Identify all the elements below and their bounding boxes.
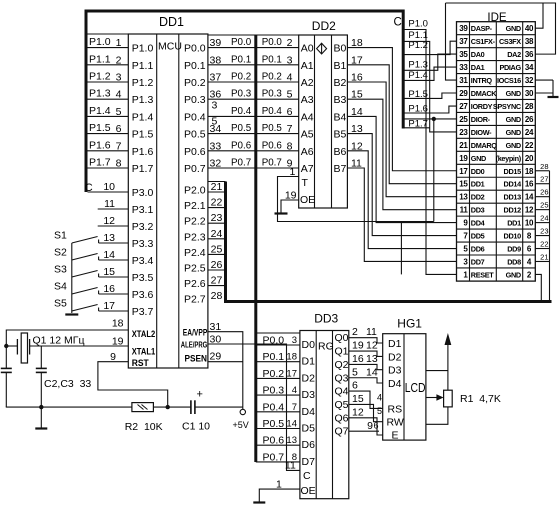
svg-text:39: 39 (459, 24, 468, 33)
IDE row pin 33 DA1 / PDIAG pin 34 (459, 63, 534, 72)
label P0.6 DD3 ladder (263, 435, 285, 447)
ground at DD2 OE (275, 212, 288, 214)
svg-text:DA1: DA1 (471, 63, 485, 72)
svg-text:GND: GND (506, 128, 521, 137)
pin 1 DD1 P1.0 (116, 37, 122, 49)
svg-text:B0: B0 (334, 43, 347, 55)
bus C top horizontal (group line) (85, 10, 405, 13)
svg-text:36: 36 (525, 50, 534, 59)
pin 9 DD2 A7 (287, 158, 293, 170)
label P0.4 ladder right (262, 106, 283, 117)
svg-text:38: 38 (525, 37, 534, 46)
svg-text:SPSYNC: SPSYNC (493, 102, 522, 111)
svg-text:+: + (197, 389, 203, 401)
svg-text:DD1: DD1 (471, 180, 485, 189)
DD1 labels EA ALE PSEN (181, 328, 208, 365)
svg-text:DD2: DD2 (312, 19, 336, 33)
svg-text:P2.6: P2.6 (184, 278, 206, 290)
pin 11 DD1 P3.1 (104, 198, 115, 210)
svg-text:S4: S4 (54, 281, 67, 293)
svg-text:10: 10 (525, 219, 534, 228)
svg-text:8: 8 (116, 158, 122, 170)
MCU DD1 box (128, 34, 208, 368)
pin 11 HG1 (366, 326, 377, 338)
svg-text:15: 15 (459, 180, 468, 189)
wire P1.7 to IDE DIOR (405, 118, 457, 120)
svg-text:A3: A3 (301, 94, 314, 106)
svg-text:P0.0: P0.0 (263, 335, 285, 347)
label P0.4 ladder left (231, 106, 252, 117)
svg-text:RW: RW (387, 417, 404, 429)
DD2 internal label OE (300, 194, 315, 206)
label P0.5 DD3 ladder (263, 418, 285, 430)
DD3 internal label OE (301, 485, 316, 497)
svg-text:17: 17 (103, 300, 115, 312)
pin 32 DD1 P0.7 (210, 158, 222, 170)
wire RST (98, 362, 168, 407)
label P0.0 ladder left (231, 37, 252, 48)
svg-text:P0.0: P0.0 (231, 37, 252, 48)
svg-text:3: 3 (116, 72, 122, 84)
svg-text:GND: GND (506, 270, 521, 279)
wire P1.5 to IDE DMACK (405, 93, 457, 98)
svg-text:9: 9 (367, 420, 373, 432)
svg-text:22: 22 (211, 197, 223, 209)
svg-text:B5: B5 (334, 129, 347, 141)
svg-text:6: 6 (374, 421, 379, 431)
wire DD3 Q1 to HG1 (349, 340, 383, 357)
pin 7 DD1 P1.6 (116, 140, 122, 152)
svg-text:P0.2: P0.2 (184, 77, 206, 89)
svg-text:P1.0: P1.0 (408, 18, 428, 29)
wire P1.1 to IDE DIOW (405, 41, 457, 131)
svg-text:21: 21 (211, 181, 223, 193)
svg-text:P3.3: P3.3 (132, 238, 154, 250)
IDE row pin 25 DIOR- / GND pin 26 (459, 115, 534, 124)
wire DD2 OE to ground (281, 200, 299, 213)
pin 4 DD1 P1.3 (116, 89, 122, 101)
wire DD2 B7 to IDE DD7 (347, 158, 456, 262)
ground for switches (65, 313, 78, 315)
DD3 ladder wires (256, 345, 300, 462)
pin 6 HG1 (374, 421, 379, 431)
ground at DD3 OE (253, 501, 265, 503)
svg-text:P1.2: P1.2 (132, 77, 154, 89)
P0 ladder wires DD1-DD2 (208, 48, 299, 168)
bus P0 vertical DD1-DD2-DD3 (254, 35, 257, 462)
svg-text:P0.4: P0.4 (263, 401, 285, 413)
wire DD3 Q5 to HG1 (349, 393, 383, 422)
svg-text:37: 37 (459, 37, 468, 46)
svg-text:RG: RG (318, 341, 334, 353)
svg-text:20: 20 (525, 154, 534, 163)
bus C left vertical (85, 10, 88, 193)
svg-text:B7: B7 (334, 163, 347, 175)
pin 24 DD1 P2.3 (211, 228, 223, 240)
label P0.1 DD3 ladder (263, 351, 285, 363)
HG1 internal pin labels (387, 338, 404, 442)
svg-text:13: 13 (351, 123, 363, 135)
svg-text:15: 15 (103, 266, 115, 278)
svg-text:DD5: DD5 (471, 232, 485, 241)
pin 33 DD1 P0.6 (210, 140, 222, 152)
pin 26 DD1 P2.5 (211, 259, 223, 271)
svg-text:38: 38 (210, 54, 222, 66)
DD1 internal labels P0.0-P0.7 (184, 43, 206, 175)
svg-text:10: 10 (103, 181, 115, 193)
svg-text:21: 21 (540, 252, 548, 261)
svg-text:E: E (392, 430, 399, 442)
svg-text:A1: A1 (301, 60, 314, 72)
wire DD3 Q0 to HG1 (349, 326, 383, 343)
svg-text:P0.7: P0.7 (184, 163, 206, 175)
svg-text:DD3: DD3 (314, 312, 338, 326)
svg-text:23: 23 (459, 128, 468, 137)
IDE row pin 15 DD1 / DD14 pin 16 (459, 180, 534, 189)
svg-text:11: 11 (366, 326, 377, 338)
svg-text:P0.4: P0.4 (231, 106, 252, 117)
pin 10 DD1 P3.0 (103, 181, 115, 193)
IDE row pin 29 DMACK / GND pin 30 (459, 89, 534, 98)
wire IDE pin 6 stub to P2 bus (535, 240, 549, 249)
wire DD3 Q3 to HG1 (349, 366, 383, 383)
capacitor C2 (1, 346, 12, 407)
svg-text:27: 27 (211, 275, 223, 287)
svg-text:P0.1: P0.1 (263, 351, 285, 363)
svg-text:Q6: Q6 (335, 412, 349, 424)
label C1 10 (182, 421, 210, 433)
wire R1 bottom to LCD (426, 407, 448, 424)
svg-text:40: 40 (525, 24, 534, 33)
svg-text:4: 4 (292, 385, 297, 396)
pin 35 split digit 5 (212, 116, 218, 128)
svg-text:P3.4: P3.4 (132, 255, 154, 267)
svg-text:RST: RST (132, 358, 149, 369)
svg-text:28: 28 (211, 290, 223, 302)
svg-text:3: 3 (287, 54, 293, 66)
svg-text:B6: B6 (334, 146, 347, 158)
wire P1.0 to IDE RESET (405, 30, 457, 275)
svg-text:8: 8 (287, 140, 293, 152)
svg-text:XTAL1: XTAL1 (132, 347, 156, 358)
svg-text:12: 12 (366, 340, 378, 352)
wire IDE GND pin40 to DA2 pin36 (446, 3, 556, 80)
svg-text:CS3FX: CS3FX (499, 37, 521, 46)
svg-text:GND: GND (471, 154, 486, 163)
svg-text:P0.4: P0.4 (262, 106, 283, 117)
svg-text:P3.7: P3.7 (132, 306, 154, 318)
svg-text:R2 10K: R2 10K (125, 421, 163, 433)
IDE row pin 11 DD3 / DD12 pin 12 (460, 206, 534, 215)
label P0.6 ladder left (231, 140, 252, 151)
DD3 internal labels Q0-Q7 (335, 332, 349, 437)
svg-text:5: 5 (377, 406, 382, 416)
wire P1.3 to IDE DA0 (405, 54, 457, 70)
label P0.2 ladder right (262, 72, 282, 83)
svg-text:A4: A4 (301, 111, 314, 123)
svg-text:DD7: DD7 (471, 257, 485, 266)
pin 7 DD2 A5 (287, 123, 293, 135)
wire P3.0 from bus C (88, 191, 129, 193)
pin 12 DD1 P3.2 (103, 215, 115, 227)
label DD1 (159, 15, 184, 29)
svg-text:P0.5: P0.5 (231, 123, 252, 134)
pin 1 DD2 T (290, 166, 296, 178)
label P1.4 left ladder (89, 105, 111, 117)
svg-text:D1: D1 (302, 356, 316, 368)
svg-text:27: 27 (540, 175, 548, 184)
wire DD3 Q6 to HG1 (349, 406, 383, 435)
pin 14 DD3 D5 (286, 419, 297, 430)
label P0.4 DD3 ladder (263, 401, 285, 413)
label Q1 12 MHz (33, 335, 85, 347)
pin 17 DD3 D2 (286, 368, 297, 379)
svg-text:P0.6: P0.6 (263, 435, 285, 447)
pin 13 HG1 (366, 353, 378, 365)
svg-text:D1: D1 (388, 338, 402, 350)
wire rail R2 to C1 (153, 406, 191, 408)
label P0.1 ladder left (231, 54, 251, 65)
label P1.1 right staircase (408, 30, 428, 41)
svg-text:P1.4: P1.4 (89, 105, 111, 117)
svg-text:+5V: +5V (233, 420, 249, 430)
svg-text:A5: A5 (301, 129, 314, 141)
svg-text:26: 26 (540, 188, 548, 197)
wire DD2 T control (278, 177, 434, 222)
P1 ladder wires DD1 left (86, 34, 128, 168)
svg-text:P0.5: P0.5 (262, 123, 283, 134)
svg-text:6: 6 (287, 106, 293, 118)
svg-text:P0.6: P0.6 (184, 146, 206, 158)
svg-text:DD13: DD13 (504, 193, 522, 202)
switch S4 (54, 281, 128, 296)
pin 5 DD2 A3 (287, 89, 293, 101)
resistor R2 (132, 403, 154, 412)
svg-text:4: 4 (116, 89, 122, 101)
svg-text:P2.2: P2.2 (184, 216, 206, 228)
switch S2 (54, 247, 128, 262)
pin 28 DD1 P2.7 (211, 290, 223, 302)
svg-text:18: 18 (525, 167, 534, 176)
svg-text:P1.7: P1.7 (132, 163, 154, 175)
svg-text:EA/VPP: EA/VPP (183, 328, 208, 338)
pin 9 RST (110, 351, 116, 363)
svg-text:DD10: DD10 (504, 232, 522, 241)
pin 34 DD1 P0.5 (210, 123, 222, 135)
svg-text:DD1: DD1 (159, 15, 184, 29)
svg-text:22: 22 (540, 240, 548, 249)
svg-text:DMARQ: DMARQ (471, 141, 497, 150)
ground at C3 (35, 407, 47, 428)
connector IDE grid (457, 22, 536, 281)
svg-text:5: 5 (116, 106, 122, 118)
svg-text:11: 11 (460, 206, 469, 215)
svg-text:P1.0: P1.0 (89, 36, 111, 48)
svg-text:4: 4 (287, 72, 293, 84)
svg-text:14: 14 (366, 366, 378, 378)
svg-text:PDIAG: PDIAG (499, 63, 521, 72)
svg-text:P3.0: P3.0 (132, 187, 154, 199)
svg-text:P0.0: P0.0 (262, 37, 283, 48)
wire DD2 B0 to IDE DD0 (347, 37, 456, 171)
DD2 internal label T (302, 177, 309, 189)
svg-text:IOCS16: IOCS16 (497, 76, 521, 85)
label P0.2 ladder left (231, 72, 251, 83)
svg-text:23: 23 (211, 212, 223, 224)
wire PSEN (208, 361, 243, 363)
svg-text:15: 15 (351, 89, 363, 101)
svg-text:OE: OE (301, 485, 316, 497)
pin 4 HG1 (377, 393, 382, 403)
svg-text:RESET: RESET (471, 270, 494, 279)
label P0.5 ladder right (262, 123, 283, 134)
pin 39 DD1 P0.0 (210, 37, 222, 49)
svg-text:XTAL2: XTAL2 (132, 329, 156, 340)
pin 2 DD1 P1.1 (116, 54, 122, 66)
IDE row pin 35 DA0 / DA2 pin 36 (459, 50, 534, 59)
svg-text:5: 5 (287, 89, 293, 101)
label P0.3 ladder left (231, 89, 252, 100)
svg-text:P0.1: P0.1 (184, 60, 206, 72)
svg-text:12: 12 (351, 140, 363, 152)
DD3 internal label C (303, 470, 311, 482)
svg-text:25: 25 (211, 243, 223, 255)
svg-text:P0.5: P0.5 (184, 129, 206, 141)
pin 2 DD2 A0 (287, 37, 293, 49)
label RG (318, 341, 334, 353)
wire T riser to DIOR net (433, 119, 435, 222)
bus P2 bottom horizontal (224, 300, 552, 303)
svg-text:DD12: DD12 (504, 206, 522, 215)
wire IDE pin 10 stub to P2 bus (535, 214, 549, 223)
label P0.3 ladder right (262, 89, 283, 100)
svg-text:13: 13 (366, 353, 378, 365)
svg-text:P0.3: P0.3 (262, 89, 283, 100)
label P0.1 ladder right (262, 54, 282, 65)
svg-text:32: 32 (525, 76, 534, 85)
svg-text:DD15: DD15 (504, 167, 522, 176)
svg-text:7: 7 (292, 402, 297, 413)
node C exit top right (394, 17, 402, 29)
svg-text:22: 22 (525, 141, 534, 150)
label HG1 (397, 317, 422, 331)
junction dot RST node (166, 405, 170, 409)
svg-text:14: 14 (103, 249, 115, 261)
svg-text:D0: D0 (302, 339, 316, 351)
svg-text:13: 13 (286, 435, 297, 446)
svg-text:MCU: MCU (158, 41, 182, 53)
svg-text:P2.3: P2.3 (184, 231, 206, 243)
svg-text:P0.5: P0.5 (263, 418, 285, 430)
capacitor C1 polarized (191, 389, 203, 415)
svg-text:RS: RS (388, 403, 403, 415)
P0 ladder top rule (208, 34, 299, 36)
switch S1 (54, 230, 128, 245)
label P1.2 left ladder (89, 71, 111, 83)
IDE row pin 23 DIOW- / GND pin 24 (459, 128, 534, 137)
wire LCD power arrow (426, 333, 451, 390)
IDE row pin 3 DD7 / DD8 pin 4 (463, 257, 532, 266)
svg-text:CS1FX-: CS1FX- (471, 37, 496, 46)
IDE row pin 1 RESET / GND pin 2 (463, 270, 532, 279)
P2 ladder top rule (208, 181, 226, 183)
svg-text:A7: A7 (301, 163, 314, 175)
label P1.7 right staircase (408, 118, 428, 129)
wire stub P3.2 (98, 225, 129, 227)
svg-text:P1.2: P1.2 (89, 71, 111, 83)
svg-text:P0.3: P0.3 (184, 94, 206, 106)
svg-text:P0.3: P0.3 (263, 385, 285, 397)
svg-text:P0.3: P0.3 (231, 89, 252, 100)
svg-text:HG1: HG1 (397, 317, 422, 331)
label C2,C3 33 (44, 378, 91, 390)
wire IDE GND pin2 to bus (535, 274, 541, 301)
svg-text:IORDY: IORDY (471, 102, 493, 111)
svg-text:17: 17 (286, 368, 297, 379)
svg-text:24: 24 (525, 128, 534, 137)
label P1.4 right staircase (408, 70, 428, 81)
svg-text:19: 19 (352, 340, 364, 352)
svg-text:P2.7: P2.7 (184, 294, 206, 306)
label P1.3 right staircase (408, 60, 428, 71)
pin 18 DD3 D1 (286, 352, 297, 363)
svg-text:1: 1 (116, 37, 122, 49)
IDE row pin 5 DD6 / DD9 pin 6 (463, 245, 532, 254)
svg-text:2: 2 (116, 54, 122, 66)
label P0.7 ladder right (262, 158, 282, 169)
svg-text:C2,C3 33: C2,C3 33 (44, 378, 91, 390)
DD3 internal labels D0-D7 (302, 339, 316, 468)
svg-text:37: 37 (210, 72, 222, 84)
svg-text:D7: D7 (302, 456, 316, 468)
pin 4 DD3 D3 (292, 385, 297, 396)
wire IDE pin 18 stub to P2 bus (535, 162, 549, 171)
label P1.7 left ladder (89, 157, 111, 169)
svg-text:Q2: Q2 (335, 359, 349, 371)
svg-text:18: 18 (351, 37, 363, 49)
wire DD3 OE to ground (259, 489, 300, 501)
DD1 internal labels P2.0-P2.7 (184, 185, 206, 306)
svg-text:P1.3: P1.3 (132, 94, 154, 106)
wire DD2 B5 to IDE DD5 (347, 123, 456, 235)
svg-text:2: 2 (352, 326, 358, 338)
bus P2 vertical (224, 182, 227, 303)
IDE row pin 19 GND / (keypin) pin 20 (459, 154, 534, 163)
ground at IDE pin30 (548, 96, 559, 98)
svg-text:DD1: DD1 (507, 219, 521, 228)
svg-text:Q7: Q7 (335, 426, 349, 438)
svg-text:30: 30 (525, 89, 534, 98)
svg-text:P1.4: P1.4 (132, 111, 154, 123)
svg-text:P2.1: P2.1 (184, 200, 206, 212)
pin 36 DD1 P0.3 (210, 89, 222, 101)
pin 13 DD3 D6 (286, 435, 297, 446)
svg-text:3: 3 (212, 100, 218, 112)
pin 29 PSEN (210, 351, 222, 363)
svg-text:16: 16 (352, 353, 364, 365)
LCD HG1 box (383, 334, 426, 440)
wire T to RESET link (400, 222, 402, 275)
svg-text:21: 21 (459, 141, 468, 150)
svg-text:5: 5 (212, 116, 218, 128)
wire DD2 B4 to IDE DD4 (347, 106, 456, 223)
svg-text:P0.7: P0.7 (231, 158, 251, 169)
svg-text:DD8: DD8 (507, 257, 521, 266)
svg-text:P1.5: P1.5 (89, 122, 111, 134)
label P1.6 right staircase (408, 103, 428, 114)
svg-text:14: 14 (351, 106, 363, 118)
svg-text:16: 16 (103, 283, 115, 295)
